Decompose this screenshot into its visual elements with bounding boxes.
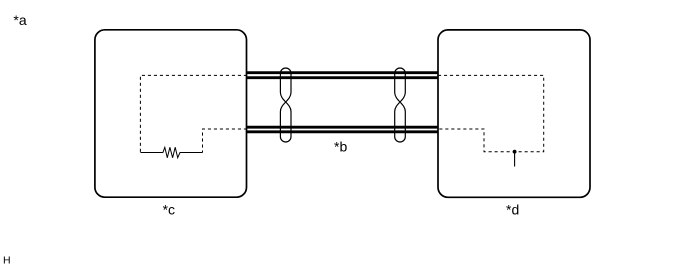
svg-text:*d: *d [506, 201, 519, 217]
svg-text:*a: *a [13, 12, 26, 28]
svg-text:*b: *b [334, 138, 347, 154]
svg-text:H: H [3, 255, 11, 267]
svg-text:*c: *c [163, 201, 175, 217]
